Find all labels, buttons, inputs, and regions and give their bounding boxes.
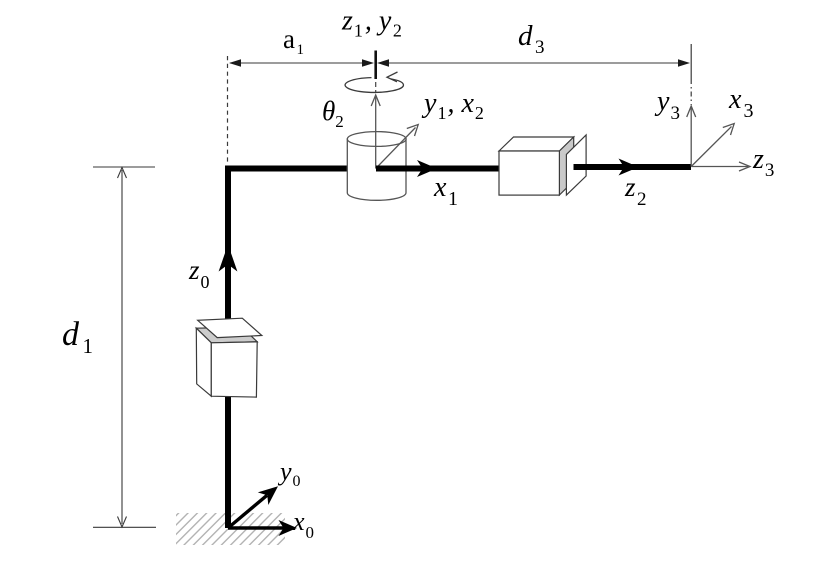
y1 diagonal thin arrow bbox=[376, 128, 416, 169]
cylinder top ellipse bbox=[347, 132, 406, 147]
prismatic box J3 top face bbox=[499, 137, 574, 151]
prismatic box J3 right face bbox=[559, 137, 573, 195]
frame 0: y0 axis bbox=[228, 495, 267, 528]
cylinder joint 2 body bbox=[347, 139, 406, 200]
rotation arrow theta2 ellipse bbox=[345, 72, 403, 92]
x3 axis bbox=[691, 127, 731, 167]
extension dashed line above base column bbox=[227, 56, 229, 164]
prismatic box J1 top face bbox=[196, 327, 257, 342]
prismatic box J3 plate bbox=[566, 135, 586, 195]
y3 axis bbox=[690, 107, 692, 167]
z0 arrowhead on vertical link bbox=[219, 245, 238, 272]
prismatic box J1 left face bbox=[196, 328, 211, 396]
thick z2 link bbox=[574, 164, 692, 170]
dash-dot below tick bbox=[375, 82, 377, 92]
prismatic box J1 plate bbox=[198, 318, 262, 337]
thick link: vertical + horizontal bbox=[228, 169, 499, 529]
z1 tick through dimension line bbox=[374, 51, 377, 80]
z3 axis bbox=[691, 166, 748, 168]
z1 thin axis arrow (up) bbox=[375, 97, 377, 169]
prismatic box J3 front face bbox=[499, 151, 559, 195]
x1 thick link over cylinder + arrowhead bbox=[376, 166, 499, 172]
ground hatch bbox=[176, 513, 285, 545]
dimension line d3 bbox=[377, 59, 690, 66]
prismatic box J1 front face bbox=[211, 342, 257, 397]
frame 0: x0 axis bbox=[228, 526, 288, 529]
frame 3 extension line bbox=[690, 44, 692, 79]
dimension line a1 bbox=[229, 59, 374, 66]
d1 dimension bbox=[93, 167, 156, 527]
